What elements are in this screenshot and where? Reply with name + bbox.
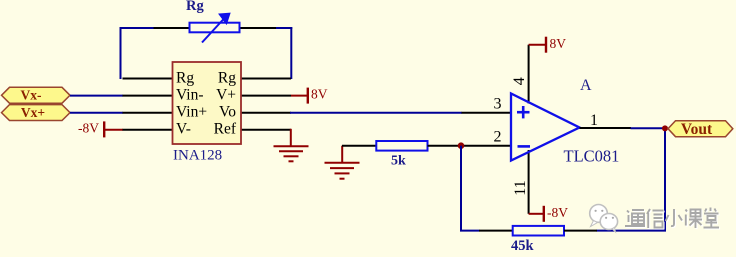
IC INA128 pin Vin+ xyxy=(123,112,173,114)
svg-text:8V: 8V xyxy=(311,86,328,101)
svg-text:11: 11 xyxy=(512,180,529,195)
svg-text:1: 1 xyxy=(590,112,598,129)
op-amp A pin 1 output xyxy=(580,127,632,129)
resistor Rg body xyxy=(190,23,240,33)
node junction Vout xyxy=(662,125,668,131)
op-amp A inverting - input symbol xyxy=(518,145,531,148)
resistor 45k left pin xyxy=(479,230,513,232)
svg-text:-8V: -8V xyxy=(78,120,99,135)
resistor Rg wiper arrowhead xyxy=(219,13,230,24)
port Vout xyxy=(668,121,733,137)
op-amp A pin 3 xyxy=(462,112,512,114)
IC INA128 pin Vin- xyxy=(123,95,173,97)
op-amp A TLC081 triangle body xyxy=(511,94,580,161)
wire: feedback bottom left horizontal xyxy=(460,230,480,232)
wire: Rg loop top-right horizontal xyxy=(276,27,293,29)
port Vx- xyxy=(2,87,71,103)
resistor 45k body xyxy=(513,226,564,236)
op-amp A pin 2 xyxy=(461,145,511,147)
svg-text:8V: 8V xyxy=(550,36,567,51)
wire: Vx- to Vin- pin xyxy=(70,95,123,97)
IC INA128 pin V- xyxy=(123,129,173,131)
IC INA128 pin V+ xyxy=(241,95,291,97)
svg-text:Vx+: Vx+ xyxy=(21,105,45,120)
svg-text:5k: 5k xyxy=(391,154,406,169)
ground (5k input) xyxy=(341,146,343,163)
resistor 5k body xyxy=(376,141,427,151)
svg-text:A: A xyxy=(580,77,592,94)
resistor 5k left pin xyxy=(342,145,377,147)
svg-text:V+: V+ xyxy=(216,86,236,103)
resistor 5k right pin xyxy=(428,145,462,147)
svg-text:45k: 45k xyxy=(511,238,535,252)
wire: feedback left vertical xyxy=(460,146,462,231)
ground (Ref) stem xyxy=(290,129,292,147)
svg-text:TLC081: TLC081 xyxy=(564,147,620,166)
resistor 45k right pin xyxy=(564,230,597,232)
node junction (5k / pin 2 / feedback) xyxy=(458,142,465,149)
svg-text:4: 4 xyxy=(511,77,528,85)
wire: feedback bottom right horizontal xyxy=(597,230,667,232)
wire: Rg loop top-left horizontal xyxy=(120,27,155,29)
wire: Vx+ to Vin+ pin xyxy=(70,112,123,114)
svg-text:V-: V- xyxy=(176,121,191,138)
svg-text:Rg: Rg xyxy=(218,69,236,86)
watermark text 通信小课堂 (simplified strokes) xyxy=(626,209,720,230)
IC INA128 pin Rg (left) xyxy=(123,78,173,80)
watermark wechat logo small bubble xyxy=(600,214,617,233)
power 8V (op-amp pin 4) xyxy=(529,44,546,46)
op-amp A non-inverting + input symbol xyxy=(517,106,530,118)
svg-text:Ref: Ref xyxy=(214,121,237,138)
wire: Rg loop left vertical xyxy=(120,27,122,79)
resistor Rg right pin xyxy=(239,27,276,29)
op-amp A pin 4 (V+) xyxy=(528,45,530,104)
svg-text:Vin-: Vin- xyxy=(176,86,203,103)
wire: pin1 to Vout node xyxy=(631,127,666,129)
op-amp A pin 11 (V-) xyxy=(528,150,530,214)
svg-text:-8V: -8V xyxy=(547,205,568,220)
svg-text:Rg: Rg xyxy=(176,69,194,86)
wire: Vo to op-amp pin 3 xyxy=(290,112,462,114)
power -8V (op-amp pin 11) xyxy=(529,213,544,215)
svg-text:Vout: Vout xyxy=(681,121,713,138)
svg-text:2: 2 xyxy=(494,129,502,146)
IC INA128 pin Vo xyxy=(241,112,291,114)
wire: feedback right vertical xyxy=(664,128,666,231)
svg-text:INA128: INA128 xyxy=(173,147,222,163)
power 8V (right of INA128 V+) xyxy=(291,95,308,97)
svg-text:Vx-: Vx- xyxy=(21,88,42,103)
svg-text:3: 3 xyxy=(494,95,502,112)
resistor Rg wiper diagonal xyxy=(202,18,225,43)
svg-text:Rg: Rg xyxy=(186,0,204,14)
port Vx+ xyxy=(2,105,71,121)
watermark wechat logo big bubble xyxy=(590,205,608,227)
IC INA128 pin Ref xyxy=(241,129,291,131)
IC INA128 body xyxy=(173,62,242,144)
wire: Rg loop right vertical xyxy=(290,27,292,79)
IC INA128 pin Rg (right) xyxy=(241,78,291,80)
svg-text:Vo: Vo xyxy=(219,104,236,121)
svg-text:Vin+: Vin+ xyxy=(176,104,207,121)
resistor Rg (potentiometer) left pin xyxy=(154,27,190,29)
ground (Ref) xyxy=(274,146,309,161)
